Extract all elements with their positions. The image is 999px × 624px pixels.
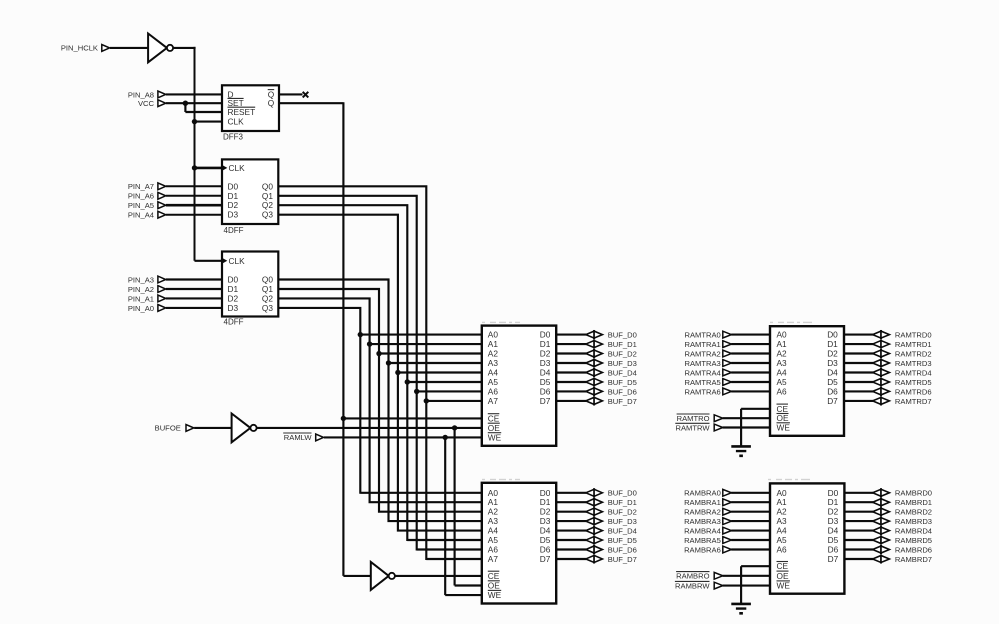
svg-text:RAMBRA5: RAMBRA5 <box>684 536 721 545</box>
svg-text:Q3: Q3 <box>262 303 273 313</box>
svg-text:RAMBRD0: RAMBRD0 <box>895 489 932 498</box>
svg-text:D3: D3 <box>827 358 838 368</box>
svg-text:RAMTRA0: RAMTRA0 <box>685 331 721 340</box>
svg-text:PIN_A1: PIN_A1 <box>128 294 154 303</box>
svg-text:RAMBRD1: RAMBRD1 <box>895 498 932 507</box>
svg-text:WE: WE <box>777 581 791 591</box>
svg-text:D3: D3 <box>228 210 239 220</box>
svg-text:D4: D4 <box>540 368 551 378</box>
svg-text:RAMBRD2: RAMBRD2 <box>895 508 932 517</box>
svg-text:BUF_D2: BUF_D2 <box>608 349 637 358</box>
svg-text:RAMBRD5: RAMBRD5 <box>895 536 932 545</box>
svg-text:D1: D1 <box>828 497 839 507</box>
svg-text:D4: D4 <box>827 368 838 378</box>
svg-text:BUFOE: BUFOE <box>155 424 181 433</box>
svg-text:PIN_A4: PIN_A4 <box>128 211 154 220</box>
svg-text:A3: A3 <box>777 358 788 368</box>
svg-text:BUF_D7: BUF_D7 <box>608 555 637 564</box>
svg-text:RAMTRD3: RAMTRD3 <box>895 359 932 368</box>
svg-text:RAMBRD3: RAMBRD3 <box>895 517 932 526</box>
svg-text:RAMTRD4: RAMTRD4 <box>895 368 932 377</box>
svg-text:D0: D0 <box>827 330 838 340</box>
svg-text:Q2: Q2 <box>262 293 273 303</box>
svg-text:Q3: Q3 <box>262 210 273 220</box>
svg-text:A6: A6 <box>777 386 788 396</box>
svg-text:D2: D2 <box>228 293 239 303</box>
svg-text:RAMBRA1: RAMBRA1 <box>684 498 721 507</box>
svg-text:CLK: CLK <box>229 163 246 173</box>
svg-text:BUF_D0: BUF_D0 <box>608 331 637 340</box>
svg-text:BUF_D6: BUF_D6 <box>608 545 637 554</box>
svg-text:OE: OE <box>777 571 789 581</box>
svg-text:RAMTRA4: RAMTRA4 <box>685 368 721 377</box>
svg-text:D6: D6 <box>827 386 838 396</box>
svg-text:A7: A7 <box>488 396 499 406</box>
svg-text:D7: D7 <box>828 554 839 564</box>
svg-text:PIN_A6: PIN_A6 <box>128 192 154 201</box>
svg-text:RAMTRD6: RAMTRD6 <box>895 387 932 396</box>
svg-text:A5: A5 <box>488 535 499 545</box>
svg-text:D0: D0 <box>228 181 239 191</box>
svg-text:BUF_D3: BUF_D3 <box>608 517 637 526</box>
svg-text:OE: OE <box>488 581 500 591</box>
svg-text:RAMBRA4: RAMBRA4 <box>684 527 721 536</box>
svg-text:RAMTRD1: RAMTRD1 <box>895 340 932 349</box>
svg-text:A2: A2 <box>777 349 788 359</box>
svg-text:A5: A5 <box>777 535 788 545</box>
svg-text:BUF_D2: BUF_D2 <box>608 508 637 517</box>
svg-text:BUF_D4: BUF_D4 <box>608 368 637 377</box>
svg-text:RAMLW: RAMLW <box>284 433 313 442</box>
svg-text:RAMTRA6: RAMTRA6 <box>685 387 721 396</box>
svg-text:RAMTRA1: RAMTRA1 <box>685 340 721 349</box>
svg-text:D5: D5 <box>828 535 839 545</box>
svg-text:BUF_D1: BUF_D1 <box>608 340 637 349</box>
svg-text:PIN_A8: PIN_A8 <box>128 90 154 99</box>
svg-text:BUF_D3: BUF_D3 <box>608 359 637 368</box>
svg-text:CE: CE <box>777 561 789 571</box>
svg-text:D7: D7 <box>540 554 551 564</box>
svg-text:D2: D2 <box>827 349 838 359</box>
svg-text:A0: A0 <box>488 330 499 340</box>
svg-text:D7: D7 <box>540 396 551 406</box>
svg-text:D3: D3 <box>828 516 839 526</box>
svg-text:A1: A1 <box>777 497 788 507</box>
svg-text:D0: D0 <box>228 275 239 285</box>
svg-text:A4: A4 <box>488 368 499 378</box>
svg-text:WE: WE <box>488 432 502 442</box>
svg-text:RAMBRA6: RAMBRA6 <box>684 545 721 554</box>
svg-text:A2: A2 <box>488 349 499 359</box>
svg-text:RAMBRO: RAMBRO <box>676 572 709 581</box>
svg-text:BUF_D5: BUF_D5 <box>608 536 637 545</box>
svg-text:PIN_A5: PIN_A5 <box>128 201 154 210</box>
svg-text:RAMTRW: RAMTRW <box>675 423 710 432</box>
svg-text:Q: Q <box>268 98 275 108</box>
svg-text:BUF_D6: BUF_D6 <box>608 387 637 396</box>
svg-text:D3: D3 <box>540 358 551 368</box>
svg-text:RAMBRA0: RAMBRA0 <box>684 489 721 498</box>
svg-text:D2: D2 <box>228 200 239 210</box>
svg-text:BUF_D5: BUF_D5 <box>608 378 637 387</box>
svg-text:PIN_A2: PIN_A2 <box>128 285 154 294</box>
svg-text:RAMTRD2: RAMTRD2 <box>895 349 932 358</box>
svg-text:WE: WE <box>777 423 791 433</box>
svg-text:D1: D1 <box>540 497 551 507</box>
svg-text:RAMBRD6: RAMBRD6 <box>895 545 932 554</box>
svg-text:RAMTRD7: RAMTRD7 <box>895 397 932 406</box>
svg-text:VCC: VCC <box>138 99 155 108</box>
svg-text:BUF_D7: BUF_D7 <box>608 397 637 406</box>
svg-text:RESET: RESET <box>228 107 256 117</box>
svg-text:D3: D3 <box>228 303 239 313</box>
svg-text:PIN_A3: PIN_A3 <box>128 275 154 284</box>
svg-text:D5: D5 <box>540 535 551 545</box>
svg-text:A6: A6 <box>488 545 499 555</box>
svg-text:RAMTRO: RAMTRO <box>677 414 710 423</box>
svg-text:RAMBRW: RAMBRW <box>675 582 710 591</box>
svg-text:Q0: Q0 <box>262 275 273 285</box>
svg-text:A1: A1 <box>488 497 499 507</box>
svg-text:Q2: Q2 <box>262 200 273 210</box>
svg-text:CLK: CLK <box>228 117 245 127</box>
svg-text:A7: A7 <box>488 554 499 564</box>
svg-text:PIN_A0: PIN_A0 <box>128 304 154 313</box>
svg-text:A6: A6 <box>777 545 788 555</box>
svg-text:PIN_HCLK: PIN_HCLK <box>61 44 98 53</box>
svg-text:A0: A0 <box>777 330 788 340</box>
svg-text:A3: A3 <box>488 358 499 368</box>
svg-text:D6: D6 <box>828 545 839 555</box>
svg-text:A3: A3 <box>488 516 499 526</box>
svg-text:4DFF: 4DFF <box>224 317 244 326</box>
svg-text:RAMTRA3: RAMTRA3 <box>685 359 721 368</box>
svg-text:RAMBRA3: RAMBRA3 <box>684 517 721 526</box>
svg-text:Q0: Q0 <box>262 181 273 191</box>
svg-text:BUF_D0: BUF_D0 <box>608 489 637 498</box>
svg-text:D7: D7 <box>827 396 838 406</box>
svg-text:WE: WE <box>488 590 502 600</box>
svg-text:CLK: CLK <box>229 256 246 266</box>
svg-text:RAMTRA2: RAMTRA2 <box>685 349 721 358</box>
svg-text:D6: D6 <box>540 545 551 555</box>
svg-text:BUF_D4: BUF_D4 <box>608 527 637 536</box>
svg-text:RAMTRD5: RAMTRD5 <box>895 378 932 387</box>
svg-text:DFF3: DFF3 <box>223 132 244 141</box>
svg-text:D6: D6 <box>540 386 551 396</box>
svg-text:RAMBRD4: RAMBRD4 <box>895 527 932 536</box>
svg-text:A6: A6 <box>488 386 499 396</box>
svg-text:RAMTRD0: RAMTRD0 <box>895 331 932 340</box>
svg-text:PIN_A7: PIN_A7 <box>128 182 154 191</box>
svg-text:BUF_D1: BUF_D1 <box>608 498 637 507</box>
svg-text:D2: D2 <box>540 349 551 359</box>
svg-text:A3: A3 <box>777 516 788 526</box>
svg-text:OE: OE <box>488 423 500 433</box>
svg-text:D0: D0 <box>540 330 551 340</box>
svg-text:4DFF: 4DFF <box>224 226 244 235</box>
svg-text:CE: CE <box>488 413 500 423</box>
svg-text:RAMTRA5: RAMTRA5 <box>685 378 721 387</box>
svg-text:D3: D3 <box>540 516 551 526</box>
svg-text:RAMBRA2: RAMBRA2 <box>684 508 721 517</box>
svg-text:RAMBRD7: RAMBRD7 <box>895 555 932 564</box>
svg-text:A4: A4 <box>777 368 788 378</box>
svg-text:CE: CE <box>488 571 500 581</box>
